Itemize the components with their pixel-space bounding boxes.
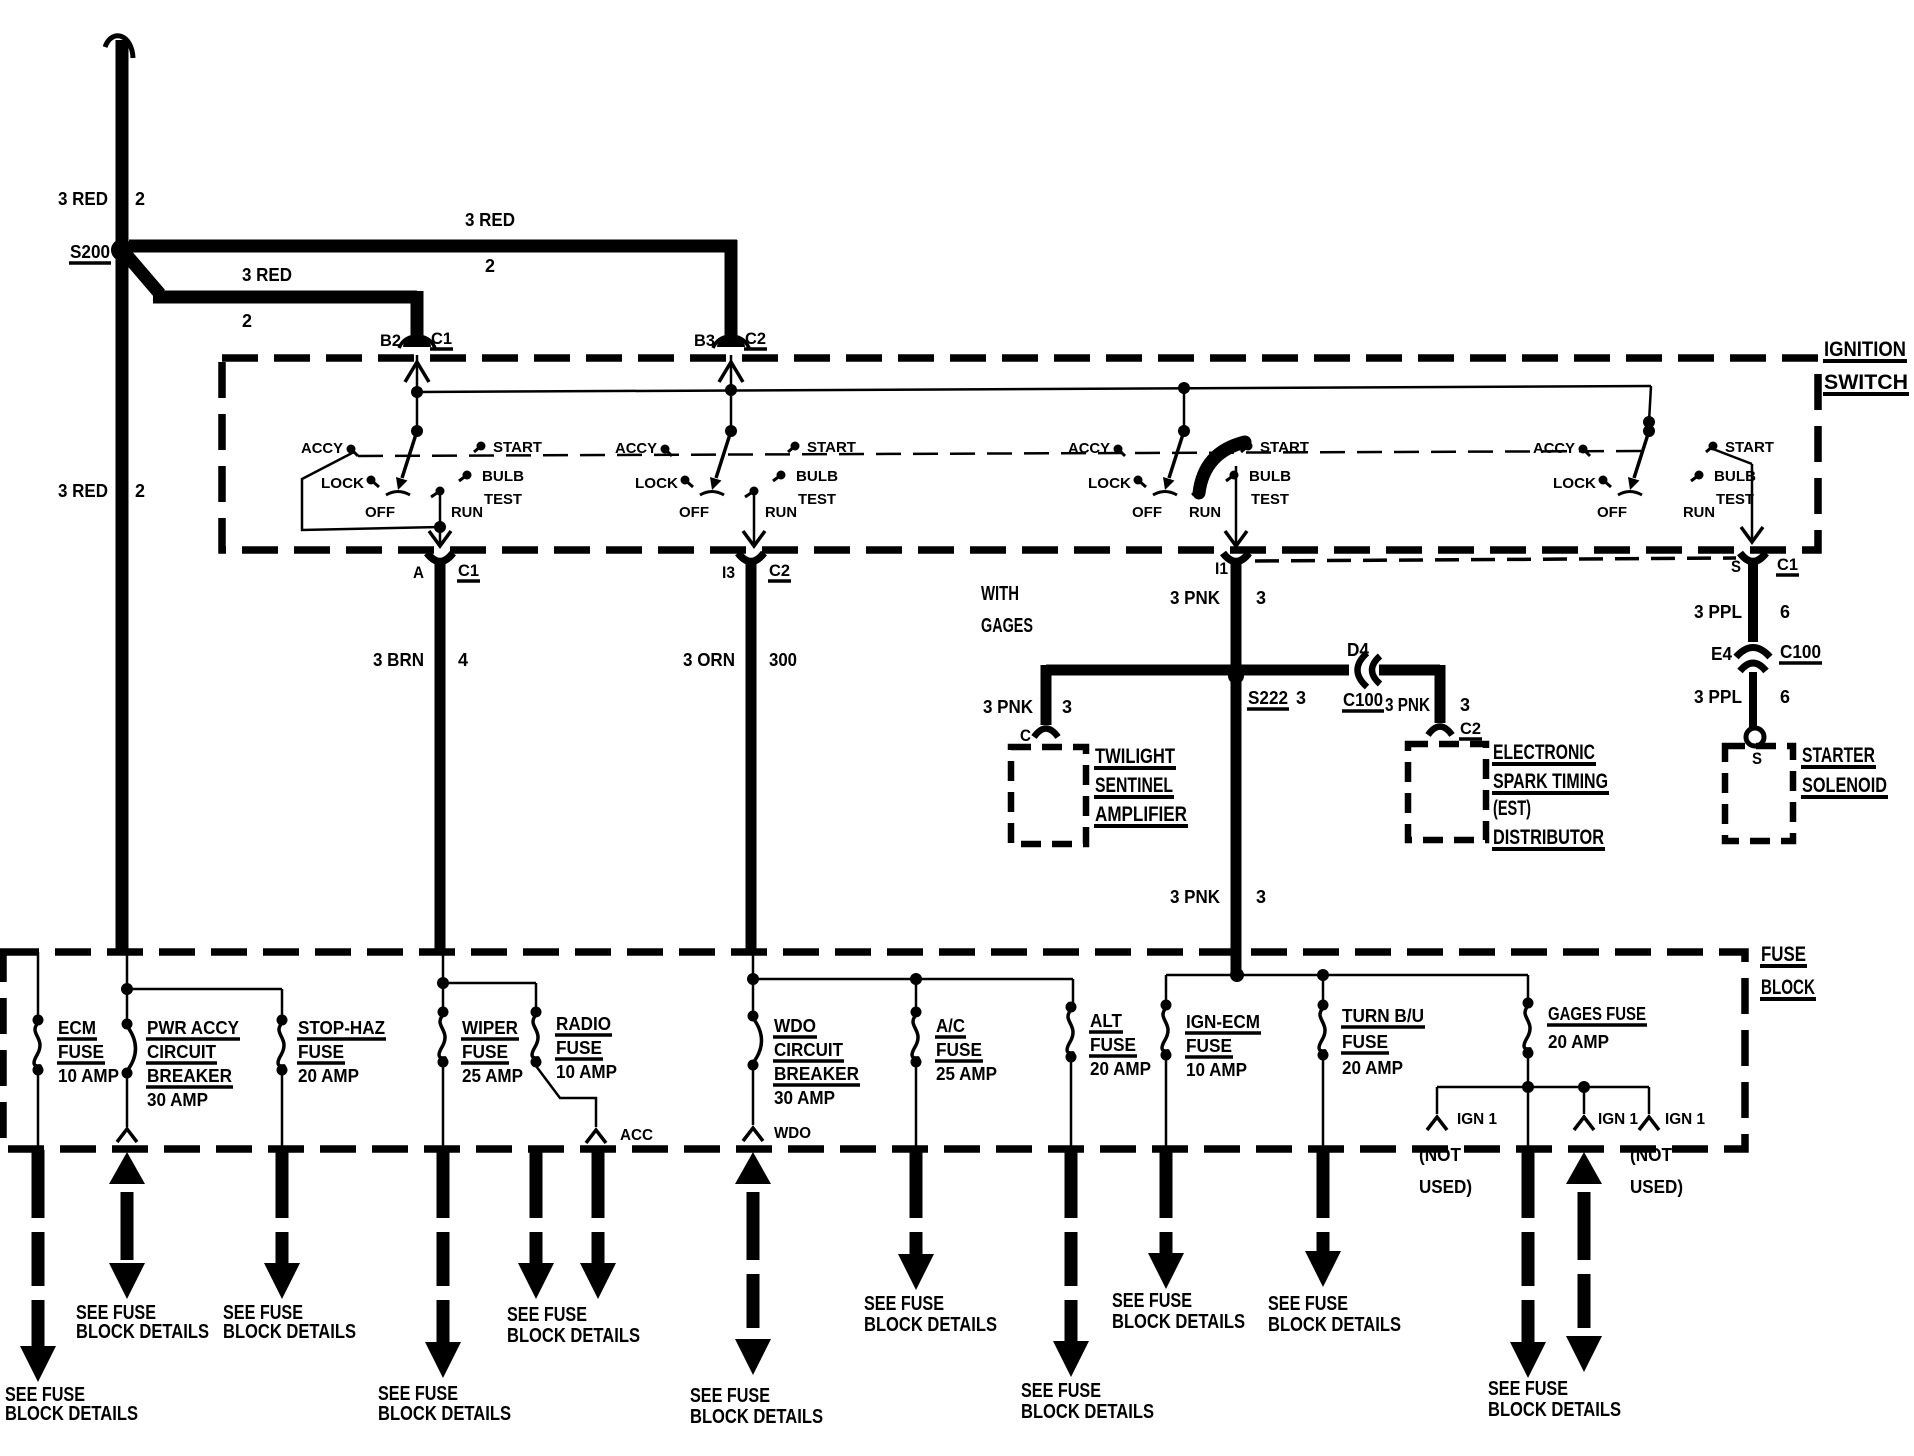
svg-text:RADIO: RADIO — [556, 1014, 611, 1034]
svg-text:3: 3 — [1256, 887, 1266, 907]
connector C100 (E4) double arc — [1736, 648, 1770, 658]
svg-text:USED): USED) — [1419, 1177, 1472, 1197]
splice at WIPER to RADIO rail — [437, 977, 449, 989]
connector B3 C2 — [717, 336, 745, 347]
wire STOP-HAZ column — [281, 989, 284, 1016]
svg-text:A: A — [413, 563, 424, 582]
connector at bottom of PWR ACCY breaker — [117, 1129, 137, 1142]
svg-text:3 PNK: 3 PNK — [1385, 695, 1430, 715]
svg-text:2: 2 — [135, 189, 145, 209]
svg-text:FUSE: FUSE — [556, 1038, 602, 1058]
svg-text:SEE FUSE: SEE FUSE — [378, 1383, 458, 1405]
svg-text:3 PPL: 3 PPL — [1694, 687, 1742, 707]
svg-text:BULB: BULB — [1249, 468, 1291, 485]
svg-text:FUSE: FUSE — [1090, 1035, 1136, 1055]
starter solenoid box — [1725, 746, 1793, 841]
connector I1 — [1223, 553, 1249, 562]
connector I3 C2 — [738, 553, 764, 562]
wire rail corner down to wafer 4 — [1649, 386, 1651, 422]
svg-text:BREAKER: BREAKER — [147, 1066, 232, 1086]
svg-text:SWITCH: SWITCH — [1824, 371, 1908, 394]
svg-text:SEE FUSE: SEE FUSE — [507, 1304, 587, 1326]
fuse TURN B/U 20 AMP — [1318, 1000, 1329, 1011]
arrow ECM to fuse block details — [32, 1150, 45, 1218]
svg-text:BLOCK DETAILS: BLOCK DETAILS — [378, 1403, 511, 1425]
svg-text:C1: C1 — [458, 561, 479, 580]
switch blade thick arc to START — [1196, 485, 1205, 494]
svg-text:S222: S222 — [1248, 688, 1288, 708]
svg-text:S: S — [1731, 557, 1741, 576]
wire 3 BRN 4 accessory feed to fuse block — [435, 564, 446, 952]
terminal arrow into ignition switch from B3 — [719, 362, 743, 382]
svg-text:START: START — [1725, 439, 1774, 456]
svg-text:3: 3 — [1062, 697, 1072, 717]
svg-text:BREAKER: BREAKER — [774, 1064, 859, 1084]
ignition switch pole wafer at x=731 — [725, 384, 737, 396]
wire 3 RED 2 from S200 to B3 C2 — [129, 240, 737, 253]
svg-text:3 RED: 3 RED — [58, 189, 108, 209]
svg-text:BLOCK DETAILS: BLOCK DETAILS — [1021, 1401, 1154, 1423]
ignition switch pole wafer at x=1184 — [1178, 382, 1190, 394]
wire 3 PPL 6 from S C1 to C100 — [1748, 564, 1758, 642]
svg-text:(NOT: (NOT — [1630, 1145, 1672, 1165]
svg-text:ACC: ACC — [620, 1127, 653, 1144]
svg-text:BULB: BULB — [1714, 468, 1756, 485]
circuit breaker PWR ACCY 30 AMP — [122, 1019, 133, 1030]
svg-text:SPARK TIMING: SPARK TIMING — [1493, 770, 1608, 793]
svg-text:SEE FUSE: SEE FUSE — [1021, 1380, 1101, 1402]
svg-text:CIRCUIT: CIRCUIT — [147, 1042, 216, 1062]
svg-text:FUSE: FUSE — [1761, 943, 1806, 966]
svg-text:E4: E4 — [1711, 644, 1732, 664]
svg-text:6: 6 — [1780, 687, 1790, 707]
svg-text:SEE FUSE: SEE FUSE — [1112, 1290, 1192, 1312]
wire IGN-ECM column — [1165, 975, 1168, 1001]
wire 3 PNK 3 ignition feed lower to fuse block — [1231, 682, 1242, 952]
wire 3 ORN 300 to fuse block — [746, 564, 757, 952]
svg-text:TURN B/U: TURN B/U — [1342, 1006, 1424, 1026]
wire 3 PNK 3 to twilight sentinel amplifier — [1046, 665, 1242, 676]
ignition switch pole wafer at x=1649 — [1643, 416, 1655, 428]
svg-text:SEE FUSE: SEE FUSE — [1268, 1293, 1348, 1315]
svg-text:OFF: OFF — [1597, 504, 1627, 521]
svg-text:FUSE: FUSE — [1186, 1036, 1232, 1056]
connector S C1 (starter feed) — [1740, 553, 1766, 562]
svg-text:C2: C2 — [1460, 719, 1481, 738]
ignition switch dashed box — [222, 358, 1818, 550]
fuse STOP-HAZ 20 AMP — [277, 1015, 288, 1026]
connector A C1 — [427, 553, 453, 562]
connector B2 C1 — [403, 336, 431, 347]
svg-text:OFF: OFF — [679, 504, 709, 521]
fuse ECM 10 AMP — [33, 1015, 44, 1026]
wire 3 PNK 3 to EST distributor — [1379, 665, 1440, 676]
svg-text:2: 2 — [242, 311, 252, 331]
wire ALT column — [1070, 1061, 1073, 1149]
svg-text:BLOCK DETAILS: BLOCK DETAILS — [864, 1314, 997, 1336]
svg-text:C100: C100 — [1343, 690, 1383, 710]
wire GAGES column — [1527, 975, 1530, 999]
splice S200 — [111, 239, 133, 261]
svg-text:STARTER: STARTER — [1802, 744, 1875, 767]
svg-text:LOCK: LOCK — [321, 475, 364, 492]
fuse ALT 20 AMP — [1066, 1002, 1077, 1013]
arrow A/C to fuse block details — [910, 1150, 923, 1218]
connector IGN 1 middle — [1583, 1087, 1586, 1114]
ignition switch secondary dashed line lower right — [1255, 558, 1736, 561]
svg-text:BLOCK DETAILS: BLOCK DETAILS — [507, 1325, 640, 1347]
svg-text:LOCK: LOCK — [635, 475, 678, 492]
splice ignition feed to fuse rail — [1230, 968, 1244, 982]
arrow WIPER to fuse block details — [437, 1150, 450, 1218]
svg-text:3: 3 — [1256, 588, 1266, 608]
arrow ACC to fuse block details — [592, 1150, 605, 1218]
svg-text:BLOCK DETAILS: BLOCK DETAILS — [1488, 1399, 1621, 1421]
electronic spark timing distributor box — [1408, 744, 1486, 840]
wire RADIO column — [535, 983, 538, 1008]
svg-text:RUN: RUN — [1683, 504, 1715, 521]
svg-text:10 AMP: 10 AMP — [1186, 1060, 1247, 1080]
splice at PWR ACCY to STOP-HAZ rail — [121, 983, 133, 995]
svg-text:RUN: RUN — [765, 504, 797, 521]
wire 3 PNK 3 ignition feed upper — [1231, 564, 1242, 676]
arrow IGN 1 to fuse block details — [1566, 1152, 1602, 1184]
svg-text:30 AMP: 30 AMP — [774, 1088, 835, 1108]
svg-text:I1: I1 — [1215, 559, 1228, 578]
svg-text:FUSE: FUSE — [58, 1042, 104, 1062]
svg-text:10 AMP: 10 AMP — [556, 1062, 617, 1082]
connector IGN 1 right (not used) — [1648, 1087, 1651, 1114]
connector C at twilight sentinel amplifier — [1034, 729, 1058, 738]
svg-text:WIPER: WIPER — [462, 1018, 518, 1038]
svg-text:BLOCK DETAILS: BLOCK DETAILS — [223, 1321, 356, 1343]
svg-text:BLOCK DETAILS: BLOCK DETAILS — [690, 1406, 823, 1428]
wire TURN B/U column — [1322, 975, 1325, 1001]
wire accessory feed polygon switch 1 — [302, 452, 440, 530]
svg-text:TEST: TEST — [484, 491, 522, 508]
svg-text:IGN 1: IGN 1 — [1598, 1111, 1638, 1128]
svg-text:ECM: ECM — [58, 1018, 96, 1038]
svg-text:BLOCK DETAILS: BLOCK DETAILS — [5, 1403, 138, 1425]
svg-text:START: START — [807, 439, 856, 456]
wire 3 PNK to connector D4 C100 — [1230, 665, 1349, 676]
svg-text:OFF: OFF — [365, 504, 395, 521]
svg-text:3 PPL: 3 PPL — [1694, 602, 1742, 622]
fuse block dashed box — [3, 952, 1745, 1149]
circuit breaker WDO 30 AMP — [748, 1011, 759, 1022]
svg-text:IGN-ECM: IGN-ECM — [1186, 1012, 1260, 1032]
connector C100 inline (D4) double chevron — [1358, 653, 1368, 687]
svg-text:25 AMP: 25 AMP — [936, 1064, 997, 1084]
svg-text:3 PNK: 3 PNK — [983, 697, 1033, 717]
svg-text:IGN 1: IGN 1 — [1457, 1111, 1497, 1128]
svg-text:ACCY: ACCY — [615, 440, 657, 457]
connector WDO — [743, 1128, 763, 1141]
svg-text:SOLENOID: SOLENOID — [1802, 774, 1887, 797]
svg-text:10 AMP: 10 AMP — [58, 1066, 119, 1086]
svg-text:USED): USED) — [1630, 1177, 1683, 1197]
svg-text:ELECTRONIC: ELECTRONIC — [1493, 741, 1595, 764]
svg-text:PWR ACCY: PWR ACCY — [147, 1018, 239, 1038]
svg-text:BLOCK DETAILS: BLOCK DETAILS — [1112, 1311, 1245, 1333]
svg-text:3 RED: 3 RED — [465, 210, 515, 230]
wire WDO column — [752, 952, 755, 1012]
svg-text:ACCY: ACCY — [1068, 440, 1110, 457]
svg-text:20 AMP: 20 AMP — [298, 1066, 359, 1086]
svg-text:SEE FUSE: SEE FUSE — [690, 1385, 770, 1407]
svg-text:SENTINEL: SENTINEL — [1095, 774, 1173, 797]
wire PWR ACCY column — [126, 952, 129, 1020]
splice S222 — [1228, 668, 1244, 684]
svg-text:3 BRN: 3 BRN — [373, 650, 424, 670]
svg-text:I3: I3 — [722, 563, 735, 582]
svg-text:3 PNK: 3 PNK — [1170, 588, 1220, 608]
svg-text:B2: B2 — [380, 331, 401, 350]
svg-text:DISTRIBUTOR: DISTRIBUTOR — [1493, 826, 1604, 849]
svg-text:3: 3 — [1460, 695, 1470, 715]
svg-text:3 RED: 3 RED — [58, 481, 108, 501]
splice GAGES to IGN 1 rail — [1522, 1081, 1534, 1093]
svg-text:BULB: BULB — [482, 468, 524, 485]
wire ECM fuse column — [37, 952, 40, 1016]
svg-text:ACCY: ACCY — [1533, 440, 1575, 457]
fuse RADIO 10 AMP — [531, 1007, 542, 1018]
connector IGN 1 left (not used) — [1436, 1087, 1439, 1114]
svg-text:CIRCUIT: CIRCUIT — [774, 1040, 843, 1060]
svg-text:SEE FUSE: SEE FUSE — [1488, 1378, 1568, 1400]
wire arrow hook at top of feed — [105, 36, 133, 58]
svg-text:2: 2 — [485, 256, 495, 276]
svg-text:BLOCK DETAILS: BLOCK DETAILS — [1268, 1314, 1401, 1336]
arrow RADIO to fuse block details — [530, 1150, 543, 1218]
svg-text:TWILIGHT: TWILIGHT — [1095, 745, 1175, 768]
terminal arrow into ignition switch from B2 — [405, 362, 429, 382]
svg-text:C2: C2 — [769, 561, 790, 580]
svg-text:25 AMP: 25 AMP — [462, 1066, 523, 1086]
svg-text:BULB: BULB — [796, 468, 838, 485]
svg-text:A/C: A/C — [936, 1016, 965, 1036]
ignition switch pole wafer at x=417 — [411, 386, 423, 398]
svg-text:START: START — [493, 439, 542, 456]
svg-text:BLOCK DETAILS: BLOCK DETAILS — [76, 1321, 209, 1343]
svg-text:C1: C1 — [1777, 555, 1798, 574]
svg-text:RUN: RUN — [1189, 504, 1221, 521]
fuse A/C 25 AMP — [911, 1007, 922, 1018]
svg-text:FUSE: FUSE — [298, 1042, 344, 1062]
svg-text:3: 3 — [1296, 688, 1306, 708]
wire RADIO fuse to ACC terminal — [536, 1066, 596, 1127]
svg-text:AMPLIFIER: AMPLIFIER — [1095, 803, 1187, 826]
svg-text:IGN 1: IGN 1 — [1665, 1111, 1705, 1128]
svg-text:FUSE: FUSE — [936, 1040, 982, 1060]
wire A/C column — [915, 979, 918, 1008]
arrow WDO to fuse block details — [735, 1152, 771, 1184]
svg-text:RUN: RUN — [451, 504, 483, 521]
connector ACC — [586, 1130, 606, 1143]
wire accessory dash-dot rail in ignition switch — [358, 451, 1643, 456]
svg-text:30 AMP: 30 AMP — [147, 1090, 208, 1110]
svg-text:2: 2 — [135, 481, 145, 501]
twilight sentinel amplifier box — [1011, 747, 1086, 844]
svg-text:3 RED: 3 RED — [242, 265, 292, 285]
svg-text:S: S — [1752, 749, 1762, 768]
svg-text:S200: S200 — [70, 242, 110, 262]
arrow IGN-ECM to fuse block details — [1160, 1150, 1173, 1218]
arrow TURN B/U to fuse block details — [1317, 1150, 1330, 1218]
wire ignition feed into fuse block rail — [1231, 952, 1242, 972]
fuse GAGES 20 AMP — [1523, 998, 1534, 1009]
arrow STOP-HAZ to fuse block details — [276, 1150, 289, 1218]
svg-text:3 PNK: 3 PNK — [1170, 887, 1220, 907]
splice WDO rail to A/C and ALT — [747, 973, 759, 985]
svg-text:6: 6 — [1780, 602, 1790, 622]
svg-text:WITH: WITH — [981, 583, 1019, 605]
arrow ALT to fuse block details — [1065, 1150, 1078, 1218]
svg-text:(NOT: (NOT — [1419, 1145, 1461, 1165]
svg-text:4: 4 — [458, 650, 468, 670]
wire START contact output switch 4 — [1713, 449, 1752, 464]
wire internal bus rail in ignition switch — [417, 386, 1651, 392]
wire 3 RED 2 main vertical feed from S200 down to fuse block — [116, 40, 129, 952]
svg-text:FUSE: FUSE — [462, 1042, 508, 1062]
wire 3 RED 2 from S200 to B2 C1 — [124, 252, 160, 294]
svg-text:C: C — [1020, 726, 1031, 745]
svg-text:TEST: TEST — [1716, 491, 1754, 508]
svg-text:TEST: TEST — [798, 491, 836, 508]
wire WIPER column — [442, 952, 445, 1008]
fuse WIPER 25 AMP — [438, 1007, 449, 1018]
arrow PWR ACCY to fuse block details — [109, 1152, 145, 1184]
svg-text:ALT: ALT — [1090, 1011, 1122, 1031]
svg-text:20 AMP: 20 AMP — [1342, 1058, 1403, 1078]
svg-text:B3: B3 — [694, 331, 715, 350]
svg-text:20 AMP: 20 AMP — [1090, 1059, 1151, 1079]
svg-text:WDO: WDO — [774, 1016, 816, 1036]
svg-text:TEST: TEST — [1251, 491, 1289, 508]
wire 3 PPL 6 from C100 to starter solenoid — [1749, 672, 1757, 728]
connector C2 at EST distributor — [1428, 727, 1452, 736]
svg-text:GAGES: GAGES — [981, 615, 1033, 637]
svg-text:C2: C2 — [745, 329, 766, 348]
svg-text:LOCK: LOCK — [1088, 475, 1131, 492]
svg-text:C1: C1 — [431, 329, 452, 348]
svg-text:IGNITION: IGNITION — [1824, 338, 1906, 361]
svg-text:GAGES FUSE: GAGES FUSE — [1548, 1004, 1646, 1024]
arrow GAGES to fuse block details — [1522, 1150, 1535, 1218]
svg-text:300: 300 — [769, 650, 797, 670]
svg-text:SEE FUSE: SEE FUSE — [864, 1293, 944, 1315]
terminal ring at starter solenoid S — [1746, 728, 1764, 746]
svg-text:BLOCK: BLOCK — [1761, 976, 1815, 999]
svg-text:ACCY: ACCY — [301, 440, 343, 457]
svg-text:OFF: OFF — [1132, 504, 1162, 521]
fuse IGN-ECM 10 AMP — [1161, 1000, 1172, 1011]
svg-text:STOP-HAZ: STOP-HAZ — [298, 1018, 385, 1038]
svg-text:20 AMP: 20 AMP — [1548, 1032, 1609, 1052]
svg-text:LOCK: LOCK — [1553, 475, 1596, 492]
svg-text:(EST): (EST) — [1493, 797, 1531, 820]
svg-text:C100: C100 — [1780, 642, 1821, 662]
svg-text:3 ORN: 3 ORN — [683, 650, 735, 670]
svg-text:WDO: WDO — [774, 1125, 811, 1142]
svg-text:START: START — [1260, 439, 1309, 456]
svg-text:FUSE: FUSE — [1342, 1032, 1388, 1052]
